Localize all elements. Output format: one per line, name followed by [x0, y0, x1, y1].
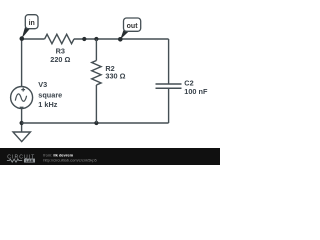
wire left rail lower — [21, 109, 23, 132]
wire top left segment — [22, 38, 45, 40]
svg-text:C2: C2 — [184, 78, 193, 87]
svg-text:100 nF: 100 nF — [184, 87, 208, 96]
wire left rail upper — [21, 39, 23, 87]
svg-text:220 Ω: 220 Ω — [50, 55, 70, 64]
ground — [13, 132, 30, 142]
resistor R3 — [45, 34, 74, 43]
svg-text:out: out — [127, 23, 139, 30]
node in flag — [22, 15, 38, 39]
capacitor C2 — [156, 84, 182, 88]
svg-text:330 Ω: 330 Ω — [105, 72, 125, 81]
wire R2 upper lead — [95, 39, 97, 61]
junction dot node out-left — [82, 37, 86, 41]
wire R2 lower lead — [95, 85, 97, 123]
junction dot node out tip — [118, 37, 123, 42]
wire bottom — [22, 122, 169, 124]
wire top right segment — [74, 38, 169, 40]
junction dot bottom-left — [20, 121, 24, 125]
junction dot node in tip — [20, 36, 25, 41]
svg-text:in: in — [29, 20, 35, 27]
footer bar — [0, 148, 220, 165]
svg-text:1 kHz: 1 kHz — [38, 100, 57, 109]
junction dot R2 bottom — [94, 121, 98, 125]
svg-text:square: square — [38, 91, 62, 100]
wire C2 upper lead — [168, 39, 170, 84]
node out flag — [120, 18, 140, 39]
footer logo zigzag — [7, 159, 22, 162]
wire C2 lower lead — [168, 88, 170, 123]
resistor R2 — [92, 61, 101, 86]
svg-text:V3: V3 — [38, 80, 47, 89]
svg-text:http://circuitlab.com/c/cnk5kp: http://circuitlab.com/c/cnk5kp5 — [43, 158, 97, 163]
junction dot R2 top — [94, 37, 98, 41]
footer logo LAB box — [24, 159, 35, 163]
svg-text:LAB: LAB — [26, 159, 34, 163]
voltage source V3 — [11, 87, 33, 109]
